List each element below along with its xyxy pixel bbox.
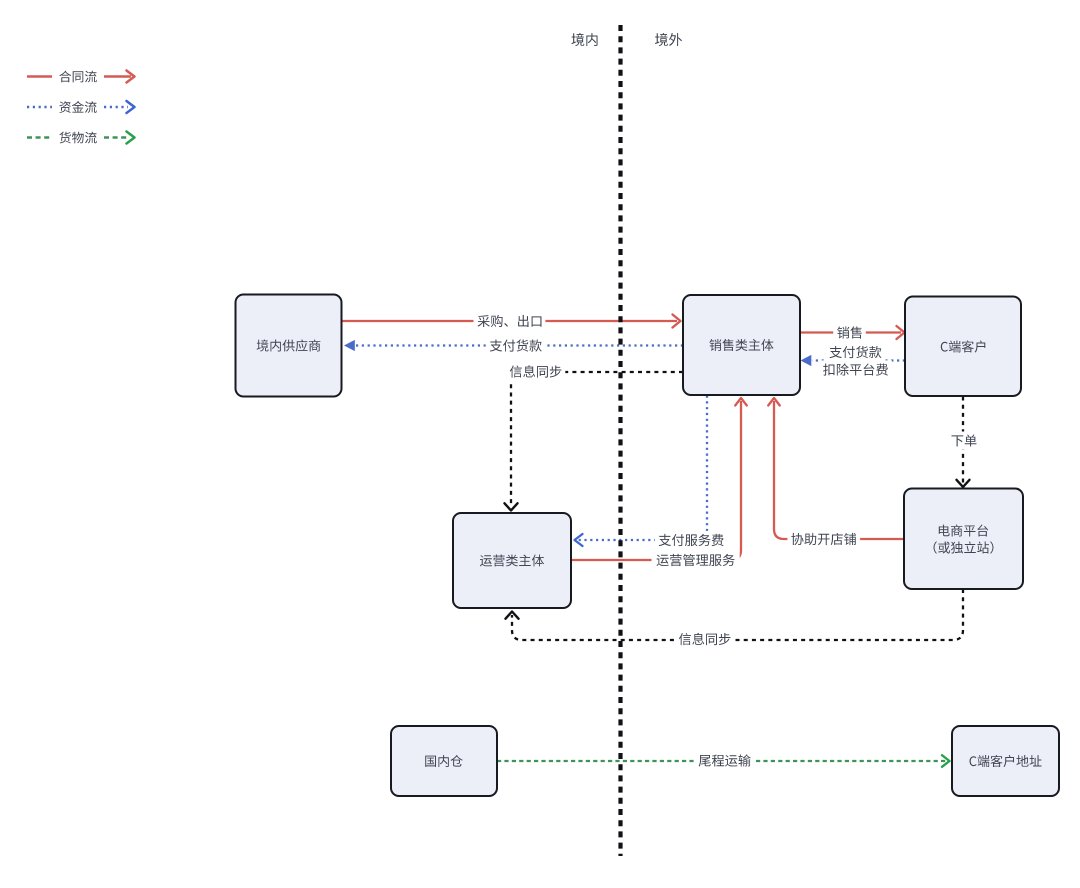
legend funds-flow (资金流) blue dotted xyxy=(27,101,135,113)
wire 运营管理服务 red operator->seller xyxy=(571,398,747,569)
legend contract-flow (合同流) red solid xyxy=(27,71,135,83)
border divider dashed vertical line xyxy=(618,25,622,856)
wire 支付货款 blue dotted seller->supplier xyxy=(344,336,683,354)
wire 尾程运输 green dashed warehouse->address xyxy=(497,751,950,769)
wire 信息同步 black dashed platform->operator (lower) xyxy=(512,589,963,640)
label 信息同步 lower xyxy=(675,630,735,648)
node C端客户地址 (customer address) xyxy=(952,726,1059,796)
wire 协助开店铺 red platform->seller xyxy=(768,398,904,548)
node 运营类主体 (operations entity) xyxy=(453,513,571,608)
node 电商平台（或独立站） e-commerce platform xyxy=(904,489,1023,590)
label 境外 (overseas) xyxy=(655,33,682,46)
label 境内 (domestic) xyxy=(571,33,597,46)
wire 下单 black dashed customer->platform xyxy=(948,397,981,488)
label 信息同步 upper xyxy=(506,362,566,380)
node 销售类主体 (sales entity) xyxy=(683,295,800,395)
wire 销售 red arrow seller->customer xyxy=(800,323,905,341)
node 国内仓 (domestic warehouse) xyxy=(391,726,497,796)
node C端客户 (C-end customer) xyxy=(905,297,1021,397)
node 境内供应商 (domestic supplier) xyxy=(236,295,342,397)
wire 信息同步 black dashed seller->operator (upper) xyxy=(511,372,683,506)
legend goods-flow (货物流) green dashed xyxy=(27,132,135,144)
wire 支付服务费 blue dotted seller->operator xyxy=(575,396,728,550)
wire 采购、出口 red arrow supplier->seller xyxy=(342,312,681,330)
wire 支付货款/扣除平台费 blue dotted customer->seller xyxy=(801,343,906,379)
